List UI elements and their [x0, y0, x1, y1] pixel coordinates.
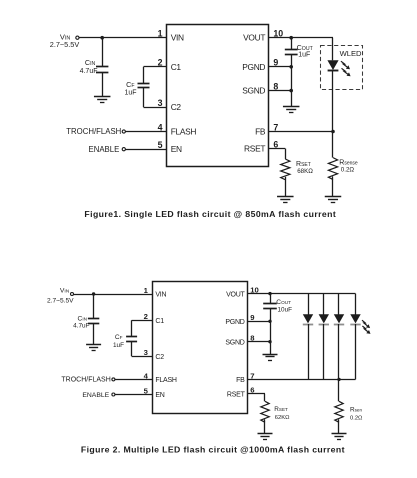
- svg-text:7: 7: [273, 122, 278, 132]
- LED D1 WLED (fig1): [327, 60, 350, 76]
- node VIN terminal (fig1): [50, 32, 80, 49]
- svg-text:10uF: 10uF: [278, 306, 293, 313]
- LED D2 (fig2): [319, 294, 329, 380]
- svg-text:ENABLE: ENABLE: [82, 392, 109, 399]
- wire LED cathode to FB node (fig1): [332, 71, 334, 132]
- svg-text:4.7uF: 4.7uF: [80, 68, 98, 75]
- svg-text:3: 3: [158, 98, 163, 108]
- ground Rsense (fig1): [325, 197, 342, 203]
- WLED dashed box (fig1): [321, 46, 363, 90]
- wire pin2 stub (fig2): [132, 320, 153, 322]
- ground COUT/PGND/SGND (fig2): [263, 355, 278, 361]
- svg-text:C2: C2: [155, 354, 164, 361]
- wire pin2 stub (fig1): [144, 66, 168, 68]
- wire CIN top lead (fig1): [102, 38, 104, 67]
- pin 3 C2 (fig1): [158, 98, 182, 112]
- caption Figure 1: [84, 209, 336, 219]
- wire FLASH (fig1): [125, 131, 167, 133]
- wire RSET bottom lead (fig1): [285, 177, 287, 197]
- node ENABLE input (fig2): [82, 392, 115, 399]
- pin 1 VIN (fig1): [158, 29, 184, 43]
- capacitor CIN 4.7uF (fig1): [80, 58, 109, 75]
- pin 8 SGND (fig2): [225, 334, 255, 347]
- junction SGND (fig2): [268, 340, 271, 343]
- svg-text:SGND: SGND: [242, 86, 265, 96]
- LED D3 (fig2): [334, 294, 344, 380]
- svg-text:VOUT: VOUT: [226, 291, 245, 298]
- wire COUT top lead (fig2): [270, 294, 272, 304]
- svg-text:EN: EN: [171, 144, 182, 154]
- wire pin3 stub (fig2): [132, 356, 153, 358]
- wire SGND stub (fig1): [269, 90, 292, 92]
- pin 1 VIN (fig2): [144, 286, 167, 299]
- wire RSET bottom lead (fig2): [264, 419, 266, 434]
- svg-text:VIN: VIN: [171, 33, 184, 43]
- wire CIN top lead (fig2): [93, 294, 95, 319]
- svg-text:COUT: COUT: [276, 299, 291, 306]
- wire VIN rail (fig2): [73, 294, 152, 296]
- junction FB/Rsen (fig2): [337, 378, 340, 381]
- pin 10 VOUT (fig1): [243, 29, 283, 43]
- op-amp U1 IC body (fig1): [167, 25, 269, 167]
- svg-text:5: 5: [158, 140, 163, 150]
- pin 6 RSET (fig2): [227, 386, 255, 399]
- resistor Rsen 0.2ohm (fig2): [335, 401, 363, 422]
- svg-text:ENABLE: ENABLE: [89, 145, 120, 154]
- pin 2 C1 (fig1): [158, 58, 182, 72]
- wire pin6 stub (fig2): [248, 394, 266, 402]
- node TROCH/FLASH input (fig2): [61, 377, 115, 384]
- wire Rsen bottom lead (fig2): [338, 419, 340, 434]
- svg-text:PGND: PGND: [225, 319, 244, 326]
- wire EN (fig1): [125, 149, 167, 151]
- svg-text:62KΩ: 62KΩ: [275, 415, 290, 421]
- wire Rsen top lead (fig2): [338, 379, 340, 401]
- capacitor CIN 4.7uF (fig2): [73, 316, 99, 330]
- caption Figure 2: [81, 445, 345, 455]
- svg-text:0.2Ω: 0.2Ω: [341, 166, 355, 173]
- pin 7 FB (fig2): [236, 371, 254, 384]
- svg-text:Rsen: Rsen: [350, 406, 362, 413]
- svg-text:68KΩ: 68KΩ: [297, 168, 313, 175]
- svg-text:SGND: SGND: [225, 339, 244, 346]
- svg-text:CF: CF: [115, 334, 123, 341]
- svg-text:0.2Ω: 0.2Ω: [350, 416, 363, 422]
- wire FB stub / LED bottom bus (fig2): [248, 379, 356, 381]
- svg-text:4.7uF: 4.7uF: [73, 322, 89, 329]
- wire pin6 stub (fig1): [269, 149, 286, 160]
- wire CF lower lead (fig1): [143, 88, 145, 108]
- wire FB stub (fig1): [269, 131, 334, 133]
- svg-text:Figure 2. Multiple LED flash c: Figure 2. Multiple LED flash circuit @10…: [81, 445, 345, 455]
- svg-text:1uF: 1uF: [113, 342, 124, 349]
- svg-text:TROCH/FLASH: TROCH/FLASH: [66, 127, 121, 136]
- wire Rsense top lead (fig1): [332, 132, 334, 158]
- wire VOUT drop to LED anode (fig1): [332, 38, 334, 61]
- wire CF lower lead (fig2): [131, 342, 133, 357]
- junction PGND (fig1): [289, 65, 293, 69]
- pin 9 PGND (fig1): [242, 58, 278, 72]
- wire CIN bottom lead (fig2): [93, 324, 95, 344]
- ground RSET (fig1): [277, 197, 294, 203]
- node VIN terminal (fig2): [47, 288, 74, 305]
- wire COUT top lead (fig1): [291, 38, 293, 50]
- capacitor COUT 1uF (fig1): [285, 43, 314, 58]
- junction VOUT/COUT (fig2): [268, 292, 271, 295]
- wire CF upper lead (fig2): [131, 320, 133, 337]
- wire CF upper lead (fig1): [143, 67, 145, 83]
- capacitor CF 1uF (fig2): [113, 334, 137, 349]
- svg-text:3: 3: [144, 348, 148, 357]
- ground Rsen (fig2): [332, 434, 347, 440]
- wire VOUT rail (fig1): [269, 37, 334, 39]
- svg-text:1uF: 1uF: [298, 51, 310, 58]
- junction SGND (fig1): [289, 89, 293, 93]
- ground COUT/PGND/SGND (fig1): [283, 107, 300, 113]
- svg-text:EN: EN: [155, 392, 164, 399]
- capacitor COUT 10uF (fig2): [263, 299, 292, 314]
- junction VIN/CIN (fig1): [100, 36, 104, 40]
- wire PGND stub (fig2): [248, 321, 271, 323]
- resistor RSET 68Kohm (fig1): [281, 159, 314, 180]
- wire EN (fig2): [115, 394, 152, 396]
- ground RSET (fig2): [258, 434, 273, 440]
- pin 5 EN (fig1): [158, 140, 182, 154]
- svg-text:RSET: RSET: [274, 406, 288, 413]
- LED D4 (fig2): [350, 294, 370, 380]
- svg-text:C2: C2: [171, 102, 182, 112]
- junction PGND (fig2): [268, 320, 271, 323]
- svg-text:VIN: VIN: [155, 292, 166, 299]
- svg-text:C1: C1: [155, 318, 164, 325]
- op-amp U2 IC body (fig2): [153, 282, 248, 414]
- pin 2 C1 (fig2): [144, 312, 165, 325]
- svg-text:PGND: PGND: [242, 62, 265, 72]
- wire VIN rail (fig1): [79, 37, 167, 39]
- pin 8 SGND (fig1): [242, 81, 278, 95]
- svg-text:FB: FB: [236, 377, 245, 384]
- svg-text:FLASH: FLASH: [171, 127, 197, 137]
- wire SGND stub (fig2): [248, 341, 271, 343]
- junction VOUT/COUT (fig1): [289, 36, 293, 40]
- pin 9 PGND (fig2): [225, 313, 254, 326]
- svg-text:RSET: RSET: [227, 391, 246, 398]
- wire CIN bottom lead (fig1): [102, 72, 104, 96]
- svg-text:C1: C1: [171, 62, 182, 72]
- svg-text:TROCH/FLASH: TROCH/FLASH: [61, 377, 110, 384]
- wire FLASH (fig2): [115, 379, 152, 381]
- ground CIN (fig1): [94, 97, 111, 103]
- junction FB/Rsense (fig1): [331, 130, 335, 134]
- resistor Rsense 0.2ohm (fig1): [328, 158, 358, 180]
- wire Rsense bottom lead (fig1): [332, 176, 334, 196]
- pin 5 EN (fig2): [144, 386, 165, 399]
- wire PGND stub (fig1): [269, 66, 292, 68]
- capacitor CF 1uF (fig1): [124, 80, 149, 97]
- svg-text:2.7~5.5V: 2.7~5.5V: [47, 297, 74, 304]
- pin 4 FLASH (fig2): [144, 371, 177, 384]
- junction VIN/CIN (fig2): [92, 292, 95, 295]
- node ENABLE input (fig1): [89, 145, 126, 154]
- svg-text:1uF: 1uF: [124, 90, 136, 97]
- svg-text:WLED: WLED: [340, 49, 362, 58]
- pin 7 FB (fig1): [255, 122, 278, 136]
- wire pin3 stub (fig1): [144, 107, 168, 109]
- wire VOUT rail / LED top bus (fig2): [248, 293, 356, 295]
- pin 10 VOUT (fig2): [226, 286, 259, 299]
- LED D1 (fig2): [303, 294, 313, 380]
- svg-text:2.7~5.5V: 2.7~5.5V: [50, 40, 80, 49]
- svg-text:RSET: RSET: [244, 144, 265, 154]
- svg-text:1: 1: [144, 286, 149, 295]
- wire COUT/PGND/SGND ground lead (fig2): [270, 309, 272, 354]
- resistor RSET 62Kohm (fig2): [261, 401, 290, 422]
- svg-text:4: 4: [158, 122, 163, 132]
- svg-text:VOUT: VOUT: [243, 33, 265, 43]
- wire COUT/PGND/SGND ground lead (fig1): [291, 55, 293, 107]
- pin 6 RSET (fig1): [244, 139, 278, 153]
- node TROCH/FLASH input (fig1): [66, 127, 125, 136]
- svg-text:Figure1. Single LED flash circ: Figure1. Single LED flash circuit @ 850m…: [84, 209, 336, 219]
- svg-text:FB: FB: [255, 127, 266, 137]
- ground CIN (fig2): [86, 345, 101, 351]
- svg-text:FLASH: FLASH: [155, 377, 177, 384]
- pin 4 FLASH (fig1): [158, 122, 197, 136]
- svg-text:VIN: VIN: [60, 288, 70, 295]
- pin 3 C2 (fig2): [144, 348, 165, 361]
